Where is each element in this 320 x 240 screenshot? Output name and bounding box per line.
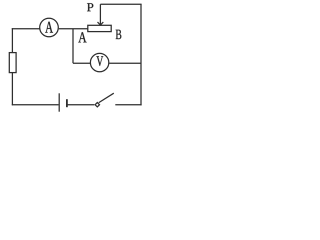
resistor R (vertical box) (9, 53, 16, 73)
voltmeter left lead wire (73, 62, 90, 64)
wire: switch right contact to bottom-right corner (115, 104, 141, 106)
switch S: open lever arm (99, 93, 114, 102)
wire: left vertical, resistor down to bottom corner (11, 73, 13, 105)
wire: top horizontal, ammeter to rheostat terminal A (59, 28, 88, 30)
wire: top-left horizontal, left corner to ammeter (12, 28, 40, 30)
wire: top-right horizontal, wiper lead to right vertical (100, 3, 141, 5)
voltmeter V (90, 53, 108, 71)
wire: vertical drop from top wire to voltmeter left lead (72, 29, 74, 63)
switch S: pivot diamond (95, 103, 99, 107)
label B (rheostat right terminal) (116, 30, 122, 39)
rheostat resistance box, terminals A and B (88, 25, 111, 31)
rheostat wiper lead: vertical wire down to arrow (99, 4, 101, 24)
voltmeter right lead wire (109, 62, 141, 64)
wire: left vertical, top corner down to resistor (11, 28, 13, 53)
rheostat wiper arrowhead P (98, 22, 104, 25)
wire: right vertical, top corner to bottom corner (140, 4, 142, 105)
battery cell: short negative plate (66, 99, 68, 107)
label P (wiper) (87, 3, 93, 11)
wire: battery to switch (68, 104, 95, 106)
ammeter A (40, 18, 59, 37)
battery cell: long positive plate (58, 93, 60, 111)
wire: bottom horizontal, left corner to battery (12, 104, 59, 106)
label A (rheostat left terminal) (78, 32, 86, 42)
